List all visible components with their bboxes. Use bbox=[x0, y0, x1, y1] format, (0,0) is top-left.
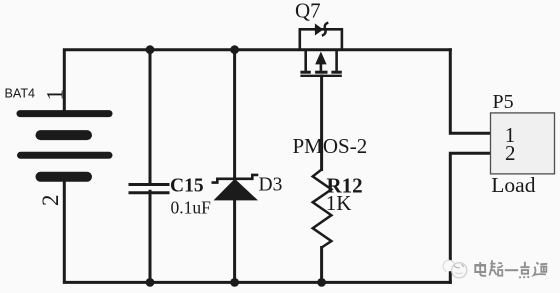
svg-text:Load: Load bbox=[491, 173, 535, 197]
node junction bottom resistor bbox=[317, 278, 326, 287]
node junction bottom diode bbox=[230, 278, 239, 287]
battery BAT4 bbox=[20, 114, 109, 177]
zener diode D3 bbox=[212, 175, 259, 201]
svg-text:P5: P5 bbox=[493, 91, 514, 113]
label PMOS-2 bbox=[293, 134, 368, 158]
watermark text lu bbox=[489, 260, 502, 276]
wire diode top branch bbox=[233, 50, 236, 179]
svg-text:0.1uF: 0.1uF bbox=[171, 197, 212, 217]
label R12 bbox=[327, 173, 363, 197]
label Load bbox=[491, 173, 535, 197]
label 0.1uF bbox=[171, 197, 212, 217]
wire resistor bottom bbox=[320, 248, 323, 283]
svg-text:2: 2 bbox=[505, 141, 516, 165]
connector pin 2 bbox=[505, 141, 516, 165]
node junction bottom capacitor bbox=[146, 278, 155, 287]
svg-text:Q7: Q7 bbox=[295, 0, 321, 22]
wire top rail bbox=[64, 50, 450, 113]
resistor R12 bbox=[313, 170, 332, 248]
transistor Q7 source leg bbox=[300, 50, 310, 72]
transistor Q7 bulk arrow bbox=[315, 52, 327, 73]
wire right vertical upper bbox=[450, 50, 490, 134]
svg-text:D3: D3 bbox=[259, 175, 283, 196]
watermark text yi bbox=[505, 269, 518, 271]
connector pin 1 bbox=[505, 123, 516, 147]
watermark text dian bbox=[475, 262, 486, 276]
svg-text:PMOS-2: PMOS-2 bbox=[293, 134, 368, 158]
watermark logo bbox=[443, 260, 467, 278]
watermark text dian2 bbox=[520, 262, 530, 278]
wire capacitor top branch bbox=[149, 50, 152, 184]
svg-text:C15: C15 bbox=[170, 176, 204, 197]
label 1K bbox=[326, 191, 352, 215]
label P5 bbox=[493, 91, 514, 113]
watermark text tong bbox=[534, 262, 547, 275]
svg-text:1K: 1K bbox=[326, 191, 352, 215]
transistor Q7 gate plate bbox=[300, 75, 341, 77]
wire bottom rail bbox=[64, 177, 450, 282]
battery pin 2 bbox=[38, 195, 63, 207]
svg-text:1: 1 bbox=[43, 89, 68, 101]
capacitor C15 bbox=[129, 185, 170, 193]
svg-text:BAT4: BAT4 bbox=[5, 86, 36, 100]
transistor Q7 body diode bbox=[315, 23, 328, 36]
wire capacitor bottom branch bbox=[149, 191, 152, 282]
label C15 bbox=[170, 176, 204, 197]
label D3 bbox=[259, 175, 283, 196]
battery pin 1 bbox=[43, 89, 68, 101]
connector P5 box bbox=[491, 113, 555, 174]
svg-text:2: 2 bbox=[38, 195, 63, 207]
label Q7 bbox=[295, 0, 321, 22]
transistor Q7 body diode loop bbox=[300, 29, 342, 49]
wire pin2 stub and right vertical lower bbox=[450, 153, 490, 282]
wire gate to resistor bbox=[320, 76, 323, 170]
transistor Q7 drain leg bbox=[331, 50, 341, 72]
label BAT4 bbox=[5, 86, 36, 100]
node junction top capacitor bbox=[146, 45, 155, 54]
node junction top diode bbox=[230, 45, 239, 54]
wire diode bottom branch bbox=[233, 200, 236, 282]
